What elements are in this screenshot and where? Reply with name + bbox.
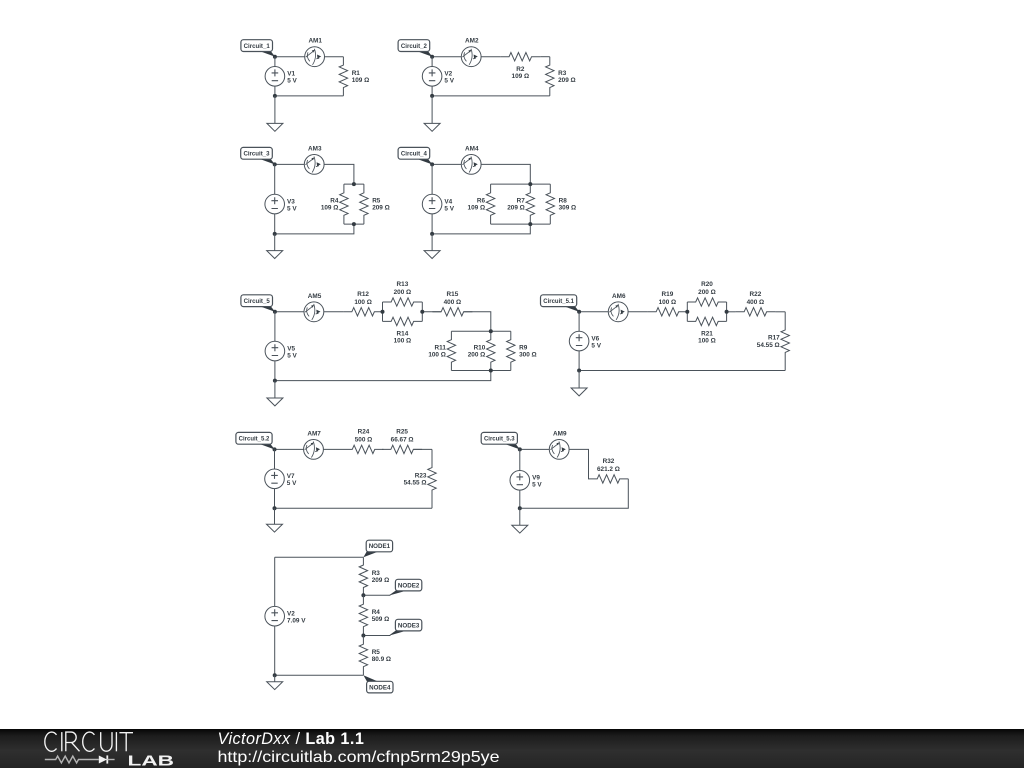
svg-text:R4: R4 [330, 198, 339, 205]
wire circuit5 bottom [275, 371, 491, 381]
footer title VictorDxx / Lab 1.1 [218, 730, 365, 748]
voltage source V3 [265, 164, 297, 234]
svg-text:400 Ω: 400 Ω [747, 299, 765, 306]
junction circuit5.1 pair right [725, 310, 729, 314]
wire circuit5 R15 to trio [464, 312, 491, 332]
wire circuit1 bottom [275, 95, 344, 97]
svg-text:AM3: AM3 [308, 145, 322, 152]
wire circuit5.1 bottom [579, 370, 785, 372]
resistor R10 [468, 331, 495, 370]
junction NODE3 [361, 634, 365, 638]
svg-text:R1: R1 [352, 70, 361, 77]
junction circuit3 parallel top [352, 182, 356, 186]
svg-text:621.2 Ω: 621.2 Ω [597, 466, 620, 473]
node label Circuit_5.2 [236, 432, 275, 449]
svg-text:109 Ω: 109 Ω [321, 205, 339, 212]
voltage source V1 [265, 57, 297, 96]
wire circuit3 bottom [275, 224, 354, 234]
svg-text:AM2: AM2 [465, 38, 479, 45]
svg-text:http://circuitlab.com/cfnp5rm2: http://circuitlab.com/cfnp5rm29p5ye [218, 749, 500, 766]
wire node2 stub [363, 594, 390, 596]
junction circuit5.3 bottom [518, 506, 522, 510]
resistor R3 [359, 557, 389, 595]
svg-text:5 V: 5 V [444, 78, 454, 85]
ammeter AM4 [461, 145, 481, 174]
node label Circuit_5 [241, 295, 275, 312]
svg-text:Circuit_5: Circuit_5 [244, 298, 271, 305]
ground [512, 508, 528, 533]
wire circuit2 bottom [432, 95, 550, 97]
junction nodecircuit bottom [273, 673, 277, 677]
resistor R2 [500, 53, 540, 80]
node circuit4 top [430, 162, 434, 166]
svg-text:R13: R13 [397, 281, 409, 288]
svg-text:109 Ω: 109 Ω [468, 205, 486, 212]
svg-text:200 Ω: 200 Ω [698, 289, 716, 296]
svg-text:R4: R4 [372, 609, 381, 616]
node label Circuit_5.3 [481, 432, 520, 449]
footer url [218, 749, 500, 766]
ground [424, 96, 440, 131]
node label NODE3 [389, 619, 422, 636]
junction NODE2 [361, 593, 365, 597]
voltage source V6 [569, 312, 601, 371]
resistor R5 [359, 636, 391, 676]
junction circuit5 bottom [273, 379, 277, 383]
resistor R12 [343, 291, 383, 316]
ground [267, 234, 283, 259]
svg-text:R5: R5 [372, 198, 381, 205]
resistor R4 [321, 184, 348, 224]
voltage source V2 [422, 57, 454, 96]
ammeter AM1 [305, 38, 325, 67]
svg-text:100 Ω: 100 Ω [659, 299, 677, 306]
svg-text:100 Ω: 100 Ω [698, 338, 716, 345]
svg-text:R3: R3 [558, 70, 567, 77]
svg-text:R19: R19 [662, 291, 674, 298]
junction circuit4 bottom [430, 232, 434, 236]
resistor R13 [383, 281, 423, 306]
svg-text:54.55 Ω: 54.55 Ω [404, 479, 427, 486]
svg-text:R32: R32 [603, 458, 615, 465]
wire circuit5 trio bottom rail [451, 370, 510, 372]
node circuit5.3 top [518, 447, 522, 451]
resistor R4 [359, 595, 389, 635]
node circuit5.2 top [273, 447, 277, 451]
svg-text:5 V: 5 V [287, 78, 297, 85]
svg-text:5 V: 5 V [532, 482, 542, 489]
CircuitLab logo CIRCUIT letters [45, 732, 133, 751]
svg-text:209 Ω: 209 Ω [372, 577, 390, 584]
resistor R32 [589, 458, 629, 483]
svg-text:R9: R9 [519, 344, 528, 351]
svg-text:66.67 Ω: 66.67 Ω [391, 436, 414, 443]
svg-text:R8: R8 [559, 198, 568, 205]
svg-text:109 Ω: 109 Ω [512, 73, 530, 80]
svg-text:R7: R7 [517, 198, 526, 205]
ground [424, 234, 440, 259]
ammeter AM5 [304, 293, 324, 322]
svg-text:Circuit_5.3: Circuit_5.3 [484, 436, 515, 443]
wire circuit3 parallel top rail [344, 183, 364, 185]
node label NODE4 [363, 675, 393, 693]
svg-text:AM4: AM4 [465, 145, 479, 152]
ground [267, 381, 283, 406]
node label Circuit_5.1 [541, 295, 580, 312]
voltage source V5 [265, 312, 297, 381]
wire circuit5.2 node to R24 [275, 448, 344, 450]
resistor R11 [428, 331, 455, 370]
svg-text:200 Ω: 200 Ω [468, 352, 486, 359]
junction circuit4 parallel bottom [528, 222, 532, 226]
wire circuit4 bottom [432, 224, 530, 234]
node circuit3 top [273, 162, 277, 166]
node circuit5 top [273, 310, 277, 314]
svg-text:R17: R17 [768, 335, 780, 342]
ammeter AM2 [461, 38, 481, 67]
node circuit5.1 top [577, 310, 581, 314]
ammeter AM6 [608, 293, 628, 322]
junction circuit5.2 bottom [273, 506, 277, 510]
svg-text:VictorDxx / Lab 1.1: VictorDxx / Lab 1.1 [218, 730, 365, 748]
resistor R14 [383, 317, 423, 344]
junction circuit3 bottom [273, 232, 277, 236]
svg-text:NODE4: NODE4 [369, 684, 391, 691]
wire circuit5.3 bottom [520, 479, 629, 508]
wire circuit4 parallel top rail [491, 183, 551, 185]
svg-text:100 Ω: 100 Ω [428, 352, 446, 359]
wire circuit5.1 pair to R22 [727, 311, 736, 313]
ammeter AM7 [304, 430, 324, 459]
svg-text:AM1: AM1 [308, 38, 322, 45]
svg-text:LAB: LAB [128, 752, 175, 768]
wire circuit4 top [432, 164, 530, 184]
resistor R25 [382, 428, 422, 453]
svg-text:209 Ω: 209 Ω [558, 77, 576, 84]
svg-text:100 Ω: 100 Ω [354, 299, 372, 306]
resistor R21 [687, 317, 726, 344]
wire circuit5 pair to R15 [422, 311, 441, 313]
svg-text:R5: R5 [372, 649, 381, 656]
node label NODE1 [363, 540, 392, 557]
node circuit2 top [430, 55, 434, 59]
wire circuit5.2 bottom [275, 507, 433, 509]
junction circuit1 bottom [273, 94, 277, 98]
svg-text:NODE1: NODE1 [369, 543, 391, 550]
footer bar [0, 729, 1024, 768]
resistor R24 [344, 428, 384, 453]
resistor R17 [757, 312, 790, 371]
svg-text:5 V: 5 V [591, 342, 601, 349]
wire circuit5.1 node to R19 [579, 311, 647, 313]
node circuit1 top [273, 55, 277, 59]
wire nodecircuit top [275, 556, 364, 558]
svg-text:R25: R25 [396, 428, 408, 435]
svg-text:Circuit_5.2: Circuit_5.2 [239, 436, 270, 443]
svg-text:R15: R15 [447, 291, 459, 298]
voltage source V9 [510, 449, 542, 508]
wire circuit1 top [275, 56, 344, 58]
svg-text:AM7: AM7 [307, 430, 321, 437]
resistor R22 [735, 291, 775, 316]
voltage source V2 [265, 557, 306, 675]
svg-text:Circuit_3: Circuit_3 [243, 151, 270, 158]
svg-text:AM6: AM6 [612, 293, 626, 300]
ammeter AM9 [549, 430, 569, 459]
svg-text:R22: R22 [750, 291, 762, 298]
wire nodecircuit bottom [275, 674, 364, 676]
svg-text:5 V: 5 V [287, 352, 297, 359]
svg-text:NODE2: NODE2 [398, 582, 420, 589]
svg-text:AM9: AM9 [553, 430, 567, 437]
node label Circuit_3 [241, 147, 275, 164]
svg-text:7.09 V: 7.09 V [287, 617, 306, 624]
resistor R7 [507, 184, 534, 224]
junction circuit4 parallel top [528, 182, 532, 186]
svg-text:209 Ω: 209 Ω [372, 205, 390, 212]
svg-text:R20: R20 [701, 281, 713, 288]
svg-text:80.9 Ω: 80.9 Ω [372, 656, 391, 663]
wire circuit5 parallel pair sides [383, 302, 423, 321]
resistor R15 [432, 291, 472, 316]
svg-text:R11: R11 [435, 344, 447, 351]
svg-text:NODE3: NODE3 [398, 622, 420, 629]
junction circuit5 trio top [489, 329, 493, 333]
ground [267, 675, 283, 689]
svg-text:R24: R24 [358, 428, 370, 435]
wire circuit4 parallel bottom rail [491, 223, 551, 225]
junction circuit5 trio bottom [489, 369, 493, 373]
svg-text:509 Ω: 509 Ω [372, 616, 390, 623]
svg-text:Circuit_4: Circuit_4 [401, 151, 428, 158]
svg-text:300 Ω: 300 Ω [519, 352, 537, 359]
junction circuit5 pair left [381, 310, 385, 314]
ground [267, 508, 283, 532]
svg-text:5 V: 5 V [287, 205, 297, 212]
resistor R8 [546, 184, 576, 224]
svg-text:AM5: AM5 [308, 293, 322, 300]
wire circuit3 parallel bottom rail [344, 223, 364, 225]
svg-text:100 Ω: 100 Ω [394, 338, 412, 345]
wire circuit5.3 node to jog [520, 449, 589, 479]
svg-text:309 Ω: 309 Ω [559, 205, 577, 212]
voltage source V4 [422, 164, 454, 234]
svg-text:Circuit_1: Circuit_1 [244, 43, 271, 50]
junction circuit5.1 bottom [577, 369, 581, 373]
wire circuit2 top [432, 56, 500, 58]
svg-text:5 V: 5 V [287, 480, 297, 487]
wire circuit3 top [275, 164, 354, 184]
wire circuit2 to R3 [540, 56, 550, 58]
svg-text:R3: R3 [372, 570, 381, 577]
junction circuit5.1 pair left [685, 310, 689, 314]
junction circuit2 bottom [430, 94, 434, 98]
resistor R20 [687, 281, 726, 306]
svg-text:500 Ω: 500 Ω [355, 436, 373, 443]
svg-text:Circuit_5.1: Circuit_5.1 [543, 298, 574, 305]
resistor R19 [647, 291, 687, 316]
node label Circuit_4 [398, 147, 432, 164]
ammeter AM3 [304, 145, 324, 174]
ground [267, 96, 283, 131]
node label Circuit_2 [398, 40, 432, 57]
CircuitLab logo LAB text [128, 752, 175, 768]
svg-text:R10: R10 [474, 344, 486, 351]
wire circuit5 node to R12 [275, 311, 343, 313]
resistor R9 [507, 331, 537, 370]
junction circuit5 pair right [420, 310, 424, 314]
node label NODE2 [389, 579, 422, 595]
resistor R3 [546, 57, 576, 96]
svg-text:R23: R23 [415, 472, 427, 479]
wire circuit5.2 R25 to corner [413, 448, 432, 450]
resistor R23 [404, 449, 437, 508]
voltage source V7 [265, 449, 297, 508]
CircuitLab logo resistor-diode squiggle [45, 755, 115, 763]
svg-text:200 Ω: 200 Ω [394, 289, 412, 296]
resistor R1 [339, 57, 369, 96]
svg-text:54.55 Ω: 54.55 Ω [757, 342, 780, 349]
wire circuit5.1 R22 to corner [775, 311, 785, 313]
svg-text:Circuit_2: Circuit_2 [401, 43, 428, 50]
resistor R5 [360, 184, 390, 224]
junction circuit3 parallel bottom [352, 222, 356, 226]
wire circuit5 trio top rail [451, 330, 510, 332]
resistor R6 [468, 184, 495, 224]
wire circuit5.1 pair sides [687, 302, 726, 321]
ground [571, 371, 587, 396]
node label Circuit_1 [241, 40, 275, 57]
svg-text:R6: R6 [477, 198, 486, 205]
svg-text:400 Ω: 400 Ω [444, 299, 462, 306]
svg-text:109 Ω: 109 Ω [352, 77, 370, 84]
wire node3 stub [363, 635, 390, 637]
svg-text:R12: R12 [357, 291, 369, 298]
svg-text:5 V: 5 V [444, 205, 454, 212]
svg-text:209 Ω: 209 Ω [507, 205, 525, 212]
